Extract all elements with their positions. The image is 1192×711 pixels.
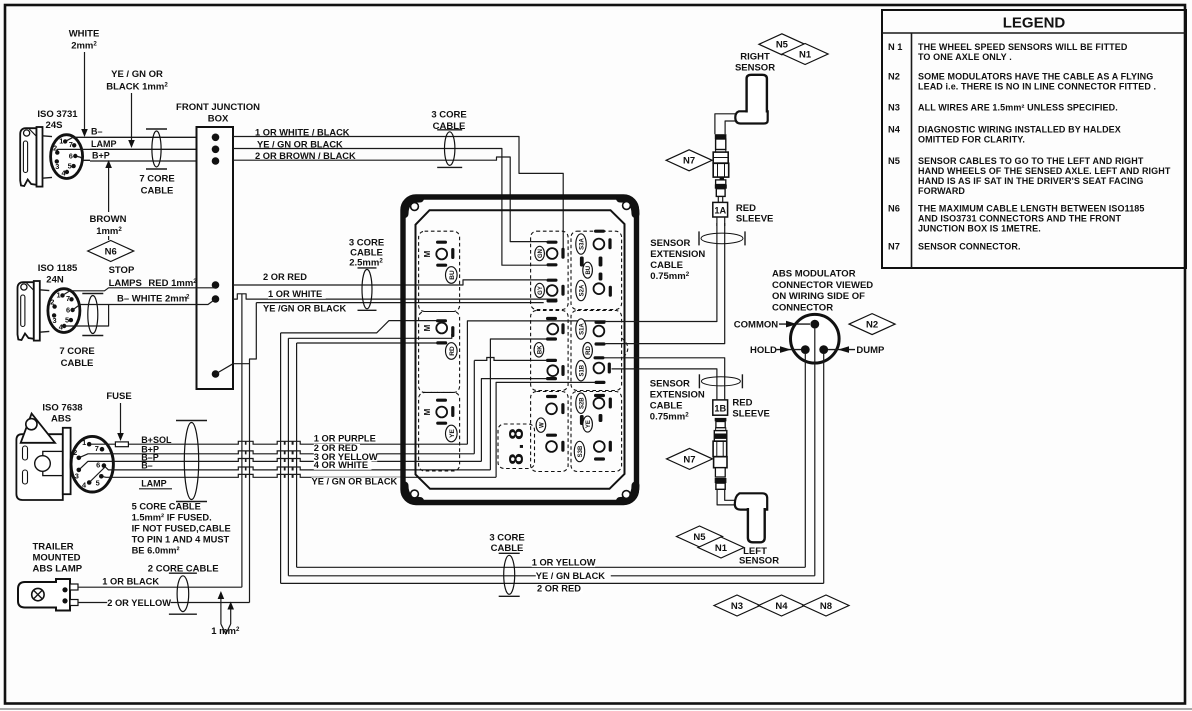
wire 1 OR WHITE / BLACK <box>233 137 563 249</box>
svg-text:2: 2 <box>53 143 57 152</box>
modulator pin DUMP <box>819 345 828 354</box>
svg-text:N5: N5 <box>776 40 789 51</box>
wire B+SOL <box>91 441 467 444</box>
svg-text:0.75mm2: 0.75mm2 <box>650 412 689 423</box>
svg-text:CABLE: CABLE <box>61 358 94 369</box>
wire B- <box>113 467 490 470</box>
svg-text:2 CORE CABLE: 2 CORE CABLE <box>148 564 219 575</box>
N7 diamond bottom <box>667 448 713 469</box>
wire B- from ISO3731 to junction box <box>90 136 197 138</box>
svg-text:SENSOR: SENSOR <box>650 379 690 390</box>
label 4 OR WHITE <box>314 461 372 470</box>
svg-text:2: 2 <box>50 297 54 306</box>
svg-text:THE WHEEL SPEED SENSORS WILL B: THE WHEEL SPEED SENSORS WILL BE FITTED <box>918 42 1128 52</box>
cable symbol 7 core (ISO3731) <box>152 131 161 167</box>
bottom feed vertical x288.4 <box>287 338 289 576</box>
dashed module box right column <box>571 231 622 309</box>
wire 1 OR YELLOW bottom <box>297 566 806 568</box>
svg-text:N1: N1 <box>799 49 812 60</box>
svg-text:AND ISO3731 CONNECTORS AND TH: AND ISO3731 CONNECTORS AND THE FRONT <box>918 214 1122 224</box>
right sensor body <box>735 111 767 123</box>
svg-text:1: 1 <box>82 438 86 447</box>
svg-text:5: 5 <box>65 316 69 325</box>
terminal group S2B <box>594 394 605 397</box>
svg-text:2: 2 <box>186 294 190 301</box>
terminal group S1A <box>595 321 606 324</box>
svg-text:N5: N5 <box>888 156 900 166</box>
wire YE / GN BLACK bottom <box>288 575 814 577</box>
cable symbol 3 core 2.5mm (mid) <box>362 269 372 308</box>
svg-text:2 OR YELLOW: 2 OR YELLOW <box>107 598 171 608</box>
svg-text:7: 7 <box>66 294 70 303</box>
svg-text:N2: N2 <box>888 72 900 82</box>
label 1 mm2 with arrows <box>220 598 222 625</box>
svg-text:M: M <box>423 250 432 257</box>
svg-text:YE / GN OR BLACK: YE / GN OR BLACK <box>257 139 343 149</box>
wire S1B to left sensor riser 1 <box>612 369 717 400</box>
svg-text:RED: RED <box>732 398 752 409</box>
svg-text:5 CORE CABLE: 5 CORE CABLE <box>132 502 201 512</box>
svg-text:GY: GY <box>538 286 544 295</box>
wire STOP LAMPS to junction box <box>63 288 216 296</box>
svg-text:S3B: S3B <box>578 445 584 457</box>
dashed module box middle column <box>531 231 569 309</box>
svg-text:N6: N6 <box>888 204 900 214</box>
svg-text:TRAILER: TRAILER <box>33 542 74 553</box>
ABS modulator connector circle <box>791 314 840 363</box>
svg-text:4 OR WHITE: 4 OR WHITE <box>314 460 368 470</box>
connector J1 ISO 3731 24S <box>20 127 42 187</box>
svg-text:STOP: STOP <box>109 265 135 276</box>
svg-text:YE /GN OR BLACK: YE /GN OR BLACK <box>263 304 346 314</box>
svg-text:1: 1 <box>59 136 63 145</box>
svg-text:MOUNTED: MOUNTED <box>33 553 81 564</box>
svg-text:6: 6 <box>66 306 70 315</box>
svg-text:N8: N8 <box>820 601 832 612</box>
svg-text:FUSE: FUSE <box>106 391 131 402</box>
svg-text:RD: RD <box>586 346 592 355</box>
ECU corner screws <box>411 203 419 211</box>
svg-text:FORWARD: FORWARD <box>918 186 965 196</box>
terminal group BK <box>546 317 557 320</box>
riser purple to S1A top bar <box>467 321 605 444</box>
svg-text:YE / GN OR BLACK: YE / GN OR BLACK <box>312 477 398 487</box>
wire chain to left sensor elbow <box>717 489 735 505</box>
svg-text:SENSOR: SENSOR <box>735 63 775 74</box>
lamp pins <box>70 584 78 590</box>
svg-text:BROWN: BROWN <box>90 214 127 225</box>
wire B- WHITE from pin6 to junction box <box>73 299 216 310</box>
svg-text:BU: BU <box>586 266 592 275</box>
wire YE/GN OR BLACK to ECU <box>256 302 543 304</box>
label 1 OR WHITE <box>268 290 326 299</box>
svg-text:2 OR BROWN / BLACK: 2 OR BROWN / BLACK <box>255 151 356 161</box>
svg-text:6: 6 <box>96 461 100 470</box>
svg-text:HOLD: HOLD <box>750 345 777 356</box>
connector J2 ISO 1185 24N <box>18 281 40 341</box>
terminal RD right <box>595 342 606 345</box>
N3 N4 N8 diamonds <box>714 595 760 616</box>
leader arrow YE/GN <box>131 93 133 141</box>
svg-text:S1B: S1B <box>580 364 586 376</box>
svg-text:CABLE: CABLE <box>650 260 683 271</box>
svg-text:TO ONE AXLE ONLY .: TO ONE AXLE ONLY . <box>918 52 1012 62</box>
svg-text:N3: N3 <box>888 103 900 113</box>
svg-text:7 CORE: 7 CORE <box>59 346 94 357</box>
svg-text:1 OR WHITE / BLACK: 1 OR WHITE / BLACK <box>255 127 350 137</box>
svg-text:N7: N7 <box>683 156 695 167</box>
cable symbol 2 core <box>177 576 189 612</box>
svg-text:THE MAXIMUM CABLE LENGTH BETWE: THE MAXIMUM CABLE LENGTH BETWEEN ISO1185 <box>918 204 1145 214</box>
terminal group GY <box>547 279 558 282</box>
terminal group S2A <box>576 280 586 300</box>
svg-text:OMITTED FOR CLARITY.: OMITTED FOR CLARITY. <box>918 135 1025 145</box>
svg-text:JUNCTION BOX IS 1METRE.: JUNCTION BOX IS 1METRE. <box>918 224 1041 234</box>
junction node dots <box>212 134 220 142</box>
left sensor body <box>735 493 767 509</box>
svg-text:RED: RED <box>736 203 756 214</box>
svg-text:CONNECTOR VIEWED: CONNECTOR VIEWED <box>772 280 873 291</box>
svg-text:BLACK 1mm2: BLACK 1mm2 <box>106 82 168 93</box>
svg-text:ABS: ABS <box>51 414 71 425</box>
svg-text:SOME MODULATORS HAVE THE CABLE: SOME MODULATORS HAVE THE CABLE AS A FLYI… <box>918 72 1153 82</box>
svg-text:8.8: 8.8 <box>507 428 530 466</box>
riser red to BK2 top bar <box>473 360 475 453</box>
svg-text:SENSOR: SENSOR <box>650 238 690 249</box>
svg-text:24N: 24N <box>46 275 64 286</box>
svg-text:5: 5 <box>96 478 100 487</box>
label 2 OR RED (bottom) <box>537 584 583 593</box>
svg-text:1.5mm² IF FUSED.: 1.5mm² IF FUSED. <box>132 513 212 523</box>
cable symbol 3 core (top) <box>445 132 455 166</box>
N7 diamond top <box>666 150 712 171</box>
label 1 OR PURPLE <box>314 434 377 443</box>
label 2 OR YELLOW <box>107 599 170 608</box>
wire 2 OR YELLOW <box>78 602 250 604</box>
svg-text:SENSOR CONNECTOR.: SENSOR CONNECTOR. <box>918 242 1021 252</box>
wire ISO3731 pin2 to LAMP line <box>57 149 90 152</box>
svg-text:ISO 1185: ISO 1185 <box>38 263 78 274</box>
terminal YE right <box>580 415 584 425</box>
svg-text:N4: N4 <box>775 601 788 612</box>
wire B+P <box>100 451 474 454</box>
svg-text:2 OR RED: 2 OR RED <box>263 272 307 282</box>
wire ISO3731 pin1 to B- line <box>65 137 90 141</box>
fuse leader arrow <box>120 403 122 434</box>
svg-text:BK: BK <box>537 345 543 354</box>
modulator wire COMMON down <box>814 329 816 576</box>
wire 2 OR RED bottom <box>281 582 824 584</box>
wire YE / GN OR BLACK (top) <box>233 149 547 266</box>
svg-text:0.75mm2: 0.75mm2 <box>650 271 689 282</box>
svg-text:COMMON: COMMON <box>734 319 778 330</box>
wire LAMP (YE/GN) <box>113 474 496 477</box>
svg-text:2.5mm2: 2.5mm2 <box>349 258 383 269</box>
svg-text:SENSOR: SENSOR <box>739 556 779 567</box>
svg-text:CABLE: CABLE <box>141 186 174 197</box>
terminal group GN <box>547 241 558 244</box>
svg-text:1 mm2: 1 mm2 <box>211 626 240 637</box>
left sensor chain pieces <box>715 418 727 421</box>
dashed arc near RD <box>622 338 628 359</box>
svg-text:1A: 1A <box>714 206 726 216</box>
terminal BU right <box>580 257 584 267</box>
svg-text:HAND WHEELS OF THE SENSED AXLE: HAND WHEELS OF THE SENSED AXLE. LEFT AND… <box>918 166 1171 176</box>
svg-text:CABLE: CABLE <box>433 121 466 132</box>
svg-text:GN: GN <box>538 249 544 258</box>
svg-text:HAND IS AS IF SAT IN THE DRIVE: HAND IS AS IF SAT IN THE DRIVER'S SEAT F… <box>918 176 1144 186</box>
svg-text:N5: N5 <box>693 532 706 543</box>
svg-text:LEAD i.e. THERE IS NO IN LINE: LEAD i.e. THERE IS NO IN LINE CONNECTOR … <box>918 82 1156 92</box>
cable symbol sensor extension (left) <box>701 377 740 386</box>
modulator pin HOLD <box>801 345 810 354</box>
svg-text:B+P: B+P <box>92 151 110 161</box>
riser white to BK1 bottom bar <box>490 339 546 470</box>
svg-text:7: 7 <box>69 140 73 149</box>
wire L3 to RD group bottom bar <box>297 342 441 344</box>
modulator wire DUMP down <box>823 353 825 583</box>
svg-text:BU: BU <box>449 270 456 280</box>
N2 diamond <box>849 314 895 335</box>
svg-text:3: 3 <box>55 162 59 171</box>
right sensor connector chain <box>715 134 727 139</box>
svg-text:SLEEVE: SLEEVE <box>732 409 770 420</box>
svg-text:3: 3 <box>53 316 57 325</box>
svg-text:2: 2 <box>73 448 77 457</box>
ECU inner plate octagon <box>416 210 625 489</box>
svg-text:RIGHT: RIGHT <box>740 52 770 63</box>
svg-text:WHITE: WHITE <box>69 29 100 40</box>
svg-text:S1A: S1A <box>580 322 586 334</box>
svg-text:7 CORE: 7 CORE <box>139 174 174 185</box>
svg-text:ISO 7638: ISO 7638 <box>42 403 82 414</box>
wire B+P from ISO3731 to junction box <box>90 160 197 162</box>
svg-text:EXTENSION: EXTENSION <box>650 390 705 401</box>
svg-text:2 OR RED: 2 OR RED <box>537 584 581 594</box>
connector J3 ISO 7638 ABS <box>16 414 70 500</box>
svg-text:ISO 3731: ISO 3731 <box>37 109 78 120</box>
N6 diamond <box>88 241 134 262</box>
svg-text:BOX: BOX <box>208 114 229 125</box>
wire junction box bottom to lamp branch <box>216 364 250 374</box>
red sleeve 1B box <box>713 400 728 415</box>
svg-text:FRONT JUNCTION: FRONT JUNCTION <box>176 102 260 113</box>
dashed module box left column <box>419 231 460 311</box>
svg-text:5: 5 <box>68 162 72 171</box>
leader arrow WHITE <box>84 52 86 130</box>
label 1 OR BLACK <box>102 577 160 586</box>
svg-text:24S: 24S <box>46 120 63 131</box>
svg-text:DUMP: DUMP <box>856 345 885 356</box>
svg-text:3: 3 <box>75 471 79 480</box>
label YE / GN BLACK (bottom) <box>536 572 611 581</box>
N5 N1 diamonds bottom <box>677 526 723 547</box>
terminal group S3A <box>576 234 586 254</box>
wire ISO3731 pin6 to B+P line <box>75 156 90 160</box>
svg-text:DIAGNOSTIC WIRING INSTALLED BY: DIAGNOSTIC WIRING INSTALLED BY HALDEX <box>918 125 1121 135</box>
modulator pin COMMON <box>810 320 819 329</box>
lamp branch vertical A <box>241 294 243 587</box>
svg-text:1 OR YELLOW: 1 OR YELLOW <box>532 558 596 568</box>
wires 1A to ECU <box>716 217 718 226</box>
svg-text:SLEEVE: SLEEVE <box>736 214 774 225</box>
svg-text:EXTENSION: EXTENSION <box>650 249 705 260</box>
label 2 OR RED (bundle) <box>314 444 360 453</box>
svg-text:1 OR BLACK: 1 OR BLACK <box>102 577 159 587</box>
cable symbol 7 core (ISO1185) <box>88 296 98 334</box>
modulator wire HOLD down <box>804 353 806 567</box>
right sensor wires to connector <box>715 114 736 134</box>
label BROWN 1mm2 <box>108 166 110 240</box>
svg-text:S2A: S2A <box>580 284 586 296</box>
svg-text:N3: N3 <box>731 601 743 612</box>
svg-text:LAMP: LAMP <box>91 139 117 149</box>
svg-text:N 1: N 1 <box>888 42 902 52</box>
wire LAMP from ISO3731 to junction box <box>90 148 197 150</box>
svg-text:3 CORE: 3 CORE <box>431 110 466 121</box>
cable symbol sensor extension (right) <box>701 233 743 244</box>
svg-text:1: 1 <box>57 290 61 299</box>
svg-text:YE: YE <box>586 420 592 428</box>
svg-text:CABLE: CABLE <box>491 543 524 554</box>
svg-text:BE 6.0mm²: BE 6.0mm² <box>132 546 180 556</box>
label YE / GN OR BLACK (bundle) <box>312 477 404 486</box>
wire L2 to RD group right bar <box>288 334 451 338</box>
svg-text:M: M <box>423 324 432 331</box>
svg-text:N1: N1 <box>715 543 728 554</box>
svg-text:IF NOT FUSED,CABLE: IF NOT FUSED,CABLE <box>132 524 231 534</box>
svg-text:S3A: S3A <box>580 237 586 249</box>
svg-text:S2B: S2B <box>580 397 586 409</box>
svg-text:SENSOR CABLES TO GO TO THE LEF: SENSOR CABLES TO GO TO THE LEFT AND RIGH… <box>918 156 1144 166</box>
ECU modulator block outline <box>403 197 637 503</box>
red sleeve 1A box <box>713 202 728 217</box>
svg-text:YE / GN BLACK: YE / GN BLACK <box>536 571 605 581</box>
svg-text:1 OR PURPLE: 1 OR PURPLE <box>314 434 376 444</box>
wire B-P <box>100 459 481 462</box>
wire 1 OR BLACK <box>78 586 242 588</box>
svg-text:LAMP: LAMP <box>141 478 167 488</box>
riser yellow to BK2 bottom bar <box>481 379 546 462</box>
display box 8.8 <box>498 424 535 469</box>
terminal group S3B <box>574 441 584 461</box>
svg-text:1B: 1B <box>714 404 726 414</box>
wire 2 OR RED to ECU <box>233 280 547 285</box>
svg-text:B– WHITE 2mm: B– WHITE 2mm <box>117 294 187 305</box>
svg-text:B–: B– <box>141 461 153 471</box>
svg-text:N4: N4 <box>888 125 901 135</box>
wire S1A to right sensor riser <box>606 223 717 322</box>
svg-text:W: W <box>539 422 545 428</box>
bottom feed vertical x296.6 <box>296 343 298 567</box>
svg-text:YE: YE <box>449 429 456 438</box>
trailer lamp body <box>18 579 70 611</box>
terminal group W <box>546 395 557 398</box>
svg-text:TO PIN 1 AND 4 MUST: TO PIN 1 AND 4 MUST <box>132 535 230 545</box>
label 1 OR YELLOW (bottom) <box>532 558 595 567</box>
ISO7638 pin stubs <box>79 454 100 458</box>
svg-text:N7: N7 <box>888 242 900 252</box>
svg-text:LEGEND: LEGEND <box>1003 15 1066 32</box>
svg-text:ALL WIRES ARE 1.5mm² UNLESS S: ALL WIRES ARE 1.5mm² UNLESS SPECIFIED. <box>918 103 1118 113</box>
wire ISO1185 pin4 loop <box>64 305 108 327</box>
svg-text:1 OR WHITE: 1 OR WHITE <box>268 289 322 299</box>
legend box <box>882 10 1186 268</box>
svg-text:CABLE: CABLE <box>650 401 683 412</box>
svg-text:N6: N6 <box>105 246 117 257</box>
svg-text:7: 7 <box>95 444 99 453</box>
wire RD to left sensor riser 2 <box>605 358 725 400</box>
svg-text:M: M <box>423 408 432 415</box>
svg-text:CONNECTOR: CONNECTOR <box>772 302 833 313</box>
lamp branch vertical B <box>250 303 257 603</box>
fuse body <box>115 442 128 447</box>
label 3 OR YELLOW <box>314 453 377 462</box>
svg-text:ABS MODULATOR: ABS MODULATOR <box>772 269 856 280</box>
svg-text:3 CORE: 3 CORE <box>489 533 524 544</box>
svg-text:ON WIRING SIDE OF: ON WIRING SIDE OF <box>772 291 865 302</box>
wire L1 to RD group top bar <box>281 321 441 333</box>
svg-text:ABS LAMP: ABS LAMP <box>33 564 83 575</box>
N5 N1 diamonds top <box>759 34 805 55</box>
wire 1 OR WHITE to ECU <box>233 294 557 299</box>
bottom feed vertical x280.6 <box>280 333 282 584</box>
wire 2 OR BROWN / BLACK <box>233 157 548 242</box>
riser ye/gn to S1B bottom bar <box>496 382 594 477</box>
svg-text:RD: RD <box>449 346 456 356</box>
svg-text:YE / GN OR: YE / GN OR <box>111 69 163 80</box>
svg-text:6: 6 <box>69 152 73 161</box>
terminal group S1B <box>576 361 586 381</box>
wire S1A-2 to right sensor riser 2 <box>606 223 725 344</box>
svg-text:B–: B– <box>91 127 103 137</box>
cable symbol 3 core (bottom) <box>504 555 515 594</box>
svg-text:B+SOL: B+SOL <box>141 435 172 445</box>
svg-text:N2: N2 <box>866 320 878 331</box>
cable symbol 5 core <box>184 423 198 500</box>
svg-text:N7: N7 <box>683 454 695 465</box>
